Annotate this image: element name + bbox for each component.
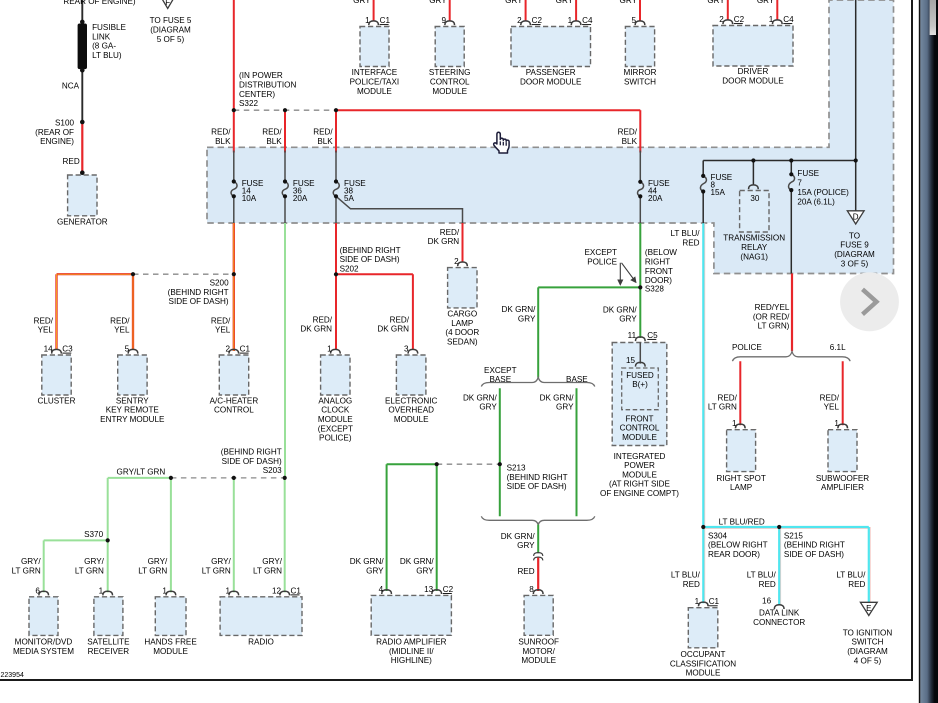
svg-text:SIDE OF DASH): SIDE OF DASH): [340, 255, 400, 264]
svg-text:DK GRN/: DK GRN/: [540, 393, 575, 402]
svg-text:15A (POLICE): 15A (POLICE): [797, 188, 849, 197]
svg-text:GRY: GRY: [620, 0, 638, 5]
svg-text:(DIAGRAM: (DIAGRAM: [834, 250, 875, 259]
svg-text:RED/: RED/: [820, 393, 840, 402]
svg-text:CLASSIFICATION: CLASSIFICATION: [670, 659, 736, 668]
svg-text:C1: C1: [709, 597, 720, 606]
svg-text:HANDS FREE: HANDS FREE: [144, 638, 197, 647]
svg-text:SIDE OF DASH): SIDE OF DASH): [507, 482, 567, 491]
svg-text:RED/: RED/: [313, 315, 333, 324]
svg-text:C1: C1: [240, 345, 251, 354]
svg-text:GRY/: GRY/: [211, 557, 231, 566]
svg-text:RED: RED: [517, 567, 534, 576]
svg-text:(OR RED/: (OR RED/: [753, 312, 790, 321]
svg-text:GRY: GRY: [353, 0, 371, 5]
svg-text:DOOR MODULE: DOOR MODULE: [520, 78, 582, 87]
svg-text:LT GRN: LT GRN: [12, 566, 41, 575]
svg-text:FUSED: FUSED: [626, 371, 654, 380]
svg-text:F: F: [165, 0, 170, 7]
svg-text:1: 1: [162, 586, 167, 595]
svg-text:GRY/: GRY/: [21, 557, 41, 566]
svg-text:RIGHT: RIGHT: [645, 258, 670, 267]
svg-text:STEERING: STEERING: [429, 68, 471, 77]
svg-text:(BEHIND RIGHT: (BEHIND RIGHT: [221, 448, 282, 457]
svg-text:SIDE OF DASH): SIDE OF DASH): [169, 297, 229, 306]
svg-text:S304: S304: [708, 531, 727, 540]
svg-text:ENGINE): ENGINE): [40, 137, 74, 146]
svg-text:TRANSMISSION: TRANSMISSION: [723, 234, 785, 243]
svg-text:FRONT: FRONT: [626, 414, 654, 423]
svg-text:(IN POWER: (IN POWER: [239, 71, 283, 80]
svg-text:FUSE: FUSE: [797, 169, 819, 178]
svg-text:SENTRY: SENTRY: [116, 396, 149, 405]
svg-text:S100: S100: [55, 119, 74, 128]
svg-text:(AT RIGHT SIDE: (AT RIGHT SIDE: [609, 480, 671, 489]
svg-text:FRONT: FRONT: [645, 267, 673, 276]
svg-text:6.1L: 6.1L: [830, 343, 846, 352]
svg-text:10A: 10A: [242, 194, 257, 203]
svg-text:DATA LINK: DATA LINK: [759, 609, 800, 618]
svg-text:4 OF 5): 4 OF 5): [854, 656, 882, 665]
svg-text:ENTRY MODULE: ENTRY MODULE: [100, 415, 165, 424]
svg-text:DISTRIBUTION: DISTRIBUTION: [239, 81, 296, 90]
svg-text:LT BLU/: LT BLU/: [670, 229, 700, 238]
svg-text:YEL: YEL: [114, 326, 130, 335]
svg-text:RIGHT SPOT: RIGHT SPOT: [716, 474, 766, 483]
svg-text:223954: 223954: [1, 672, 24, 679]
svg-text:2: 2: [719, 15, 724, 24]
svg-text:(BELOW RIGHT: (BELOW RIGHT: [708, 541, 768, 550]
svg-text:GRY: GRY: [556, 403, 574, 412]
svg-text:(EXCEPT: (EXCEPT: [318, 424, 353, 433]
svg-text:GRY: GRY: [366, 566, 384, 575]
svg-text:LT BLU/: LT BLU/: [836, 571, 866, 580]
svg-text:DK GRN/: DK GRN/: [501, 532, 536, 541]
svg-text:LT GRN: LT GRN: [708, 403, 737, 412]
svg-text:(8 GA-: (8 GA-: [92, 42, 116, 51]
svg-text:1: 1: [568, 16, 573, 25]
svg-text:3: 3: [404, 345, 409, 354]
svg-text:S202: S202: [340, 265, 359, 274]
svg-text:LT BLU): LT BLU): [92, 51, 122, 60]
svg-text:BLK: BLK: [622, 137, 638, 146]
svg-text:PASSENGER: PASSENGER: [526, 68, 576, 77]
svg-text:RED/: RED/: [313, 127, 333, 136]
svg-text:C2: C2: [443, 585, 454, 594]
svg-text:BLK: BLK: [317, 137, 333, 146]
svg-text:1: 1: [732, 419, 737, 428]
svg-text:30: 30: [750, 194, 760, 203]
svg-text:LT BLU/: LT BLU/: [747, 571, 777, 580]
svg-text:(BELOW: (BELOW: [645, 248, 677, 257]
svg-text:RED/: RED/: [618, 127, 638, 136]
svg-text:EXCEPT: EXCEPT: [484, 366, 517, 375]
svg-text:MODULE: MODULE: [622, 470, 657, 479]
svg-text:CENTER): CENTER): [239, 90, 275, 99]
svg-text:TO IGNITION: TO IGNITION: [843, 628, 893, 637]
svg-text:AMPLIFIER: AMPLIFIER: [821, 483, 864, 492]
svg-text:REAR OF ENGINE): REAR OF ENGINE): [63, 0, 136, 6]
svg-text:POLICE: POLICE: [732, 343, 762, 352]
svg-text:RED: RED: [759, 580, 776, 589]
svg-text:DK GRN/: DK GRN/: [502, 305, 537, 314]
svg-text:SUBWOOFER: SUBWOOFER: [816, 474, 869, 483]
svg-text:OF ENGINE COMPT): OF ENGINE COMPT): [600, 489, 679, 498]
svg-text:RED/: RED/: [390, 315, 410, 324]
svg-text:LT GRN): LT GRN): [758, 322, 790, 331]
svg-text:RELAY: RELAY: [741, 243, 768, 252]
svg-text:3 OF 5): 3 OF 5): [841, 259, 869, 268]
svg-text:1: 1: [834, 419, 839, 428]
svg-text:CONNECTOR: CONNECTOR: [753, 618, 805, 627]
svg-text:MONITOR/DVD: MONITOR/DVD: [15, 638, 73, 647]
svg-text:1: 1: [695, 597, 700, 606]
svg-text:MODULE: MODULE: [318, 415, 353, 424]
svg-text:1: 1: [769, 15, 774, 24]
svg-text:CLUSTER: CLUSTER: [38, 396, 76, 405]
svg-text:1: 1: [365, 16, 370, 25]
svg-text:RED/: RED/: [110, 316, 130, 325]
svg-text:RED: RED: [682, 238, 699, 247]
svg-text:15A: 15A: [711, 188, 726, 197]
svg-text:DK GRN: DK GRN: [300, 325, 332, 334]
svg-text:5: 5: [125, 345, 130, 354]
svg-text:GRY: GRY: [505, 0, 523, 5]
svg-text:5: 5: [631, 16, 636, 25]
svg-text:POLICE: POLICE: [587, 258, 617, 267]
svg-text:KEY REMOTE: KEY REMOTE: [106, 406, 160, 415]
svg-text:(BEHIND RIGHT: (BEHIND RIGHT: [168, 288, 229, 297]
svg-text:RED/: RED/: [440, 228, 460, 237]
svg-text:1: 1: [327, 345, 332, 354]
svg-text:S328: S328: [645, 284, 664, 293]
svg-text:(MIDLINE II/: (MIDLINE II/: [389, 647, 434, 656]
svg-text:INTERFACE: INTERFACE: [352, 68, 398, 77]
svg-text:RED/: RED/: [211, 127, 231, 136]
svg-text:GRY: GRY: [479, 403, 497, 412]
svg-text:BLK: BLK: [266, 137, 282, 146]
svg-text:POWER: POWER: [624, 461, 655, 470]
svg-text:RED/: RED/: [34, 316, 54, 325]
svg-text:A/C-HEATER: A/C-HEATER: [210, 396, 259, 405]
svg-text:SIDE OF DASH): SIDE OF DASH): [784, 550, 844, 559]
svg-text:SATELLITE: SATELLITE: [87, 638, 130, 647]
svg-text:TO: TO: [849, 231, 860, 240]
svg-text:GRY/: GRY/: [148, 557, 168, 566]
svg-text:C4: C4: [582, 16, 593, 25]
svg-text:E: E: [866, 604, 871, 613]
svg-text:S322: S322: [239, 99, 258, 108]
svg-text:BLK: BLK: [215, 137, 231, 146]
svg-text:8: 8: [529, 585, 534, 594]
svg-text:MOTOR/: MOTOR/: [523, 647, 556, 656]
svg-text:S370: S370: [84, 530, 103, 539]
svg-text:7: 7: [797, 179, 802, 188]
svg-text:(BEHIND RIGHT: (BEHIND RIGHT: [340, 246, 401, 255]
svg-text:C1: C1: [380, 16, 391, 25]
svg-text:SWITCH: SWITCH: [624, 78, 656, 87]
svg-text:OCCUPANT: OCCUPANT: [681, 650, 726, 659]
svg-text:MEDIA SYSTEM: MEDIA SYSTEM: [13, 647, 74, 656]
svg-text:DK GRN/: DK GRN/: [463, 393, 498, 402]
svg-text:CLOCK: CLOCK: [321, 406, 350, 415]
svg-text:DK GRN: DK GRN: [377, 325, 409, 334]
svg-text:GRY: GRY: [707, 0, 725, 5]
svg-text:2: 2: [225, 345, 230, 354]
svg-text:POLICE/TAXI: POLICE/TAXI: [350, 78, 400, 87]
svg-text:LT GRN: LT GRN: [202, 566, 231, 575]
svg-text:5A: 5A: [344, 194, 355, 203]
svg-text:MIRROR: MIRROR: [624, 68, 657, 77]
svg-text:LAMP: LAMP: [730, 483, 752, 492]
svg-text:S203: S203: [263, 466, 282, 475]
svg-text:2: 2: [454, 257, 459, 266]
svg-text:NCA: NCA: [62, 82, 80, 91]
svg-text:GRY: GRY: [556, 0, 574, 5]
svg-text:(4 DOOR: (4 DOOR: [445, 328, 479, 337]
svg-text:13: 13: [424, 585, 434, 594]
svg-text:9: 9: [441, 16, 446, 25]
svg-text:LT GRN: LT GRN: [138, 566, 167, 575]
svg-text:DK GRN: DK GRN: [428, 237, 460, 246]
svg-text:C2: C2: [532, 16, 543, 25]
svg-text:RED/YEL: RED/YEL: [755, 303, 790, 312]
svg-text:LINK: LINK: [92, 32, 111, 41]
svg-text:POLICE): POLICE): [319, 434, 352, 443]
svg-text:MODULE: MODULE: [432, 87, 467, 96]
svg-text:CARGO: CARGO: [447, 310, 477, 319]
svg-text:MODULE: MODULE: [521, 656, 556, 665]
svg-text:GRY: GRY: [429, 0, 447, 5]
svg-text:1: 1: [99, 586, 104, 595]
svg-text:11: 11: [628, 331, 637, 340]
svg-text:(REAR OF: (REAR OF: [35, 128, 74, 137]
svg-text:D: D: [853, 212, 859, 221]
svg-text:RADIO AMPLIFIER: RADIO AMPLIFIER: [376, 638, 447, 647]
svg-text:MODULE: MODULE: [622, 433, 657, 442]
svg-text:FUSE 9: FUSE 9: [840, 241, 869, 250]
svg-text:6: 6: [35, 586, 40, 595]
svg-text:20A (6.1L): 20A (6.1L): [797, 198, 835, 207]
svg-text:RADIO: RADIO: [248, 638, 274, 647]
svg-text:RECEIVER: RECEIVER: [88, 647, 130, 656]
svg-text:(BEHIND RIGHT: (BEHIND RIGHT: [507, 473, 568, 482]
svg-text:DK GRN/: DK GRN/: [603, 305, 638, 314]
svg-text:(DIAGRAM: (DIAGRAM: [150, 26, 191, 35]
svg-text:1: 1: [225, 586, 230, 595]
svg-text:GRY/: GRY/: [84, 557, 104, 566]
svg-text:DRIVER: DRIVER: [738, 67, 769, 76]
svg-text:GRY: GRY: [416, 566, 434, 575]
svg-text:GRY: GRY: [757, 0, 775, 5]
svg-text:5 OF 5): 5 OF 5): [157, 35, 185, 44]
svg-text:16: 16: [762, 596, 772, 605]
svg-text:LT BLU/: LT BLU/: [671, 571, 701, 580]
svg-text:14: 14: [44, 345, 54, 354]
svg-text:CONTROL: CONTROL: [430, 78, 470, 87]
svg-text:S200: S200: [210, 279, 229, 288]
svg-text:RED: RED: [848, 580, 865, 589]
svg-text:DK GRN/: DK GRN/: [350, 557, 385, 566]
svg-text:OVERHEAD: OVERHEAD: [388, 406, 434, 415]
svg-text:B(+): B(+): [632, 380, 648, 389]
svg-text:SWITCH: SWITCH: [851, 638, 883, 647]
svg-text:4: 4: [379, 585, 384, 594]
svg-text:MODULE: MODULE: [686, 669, 721, 678]
svg-text:ANALOG: ANALOG: [318, 396, 352, 405]
svg-text:S213: S213: [507, 464, 526, 473]
svg-text:C1: C1: [291, 586, 302, 595]
svg-text:SIDE OF DASH): SIDE OF DASH): [222, 457, 282, 466]
svg-text:EXCEPT: EXCEPT: [584, 248, 617, 257]
svg-text:(DIAGRAM: (DIAGRAM: [847, 647, 888, 656]
svg-text:2: 2: [517, 16, 522, 25]
svg-text:20A: 20A: [648, 194, 663, 203]
svg-text:ELECTRONIC: ELECTRONIC: [385, 396, 438, 405]
svg-text:GRY: GRY: [518, 314, 536, 323]
svg-text:LT BLU/RED: LT BLU/RED: [719, 517, 765, 526]
svg-text:YEL: YEL: [824, 403, 840, 412]
svg-text:MODULE: MODULE: [394, 415, 429, 424]
svg-text:CONTROL: CONTROL: [214, 406, 254, 415]
svg-text:C2: C2: [734, 15, 745, 24]
svg-text:20A: 20A: [293, 194, 308, 203]
svg-text:LT GRN: LT GRN: [253, 566, 282, 575]
svg-text:RED: RED: [683, 580, 700, 589]
svg-text:(BEHIND RIGHT: (BEHIND RIGHT: [784, 541, 845, 550]
svg-text:RED/: RED/: [211, 316, 231, 325]
svg-text:SEDAN): SEDAN): [447, 337, 478, 346]
svg-text:INTEGRATED: INTEGRATED: [614, 452, 666, 461]
svg-text:GENERATOR: GENERATOR: [57, 218, 108, 227]
svg-text:LT GRN: LT GRN: [75, 566, 104, 575]
svg-text:(NAG1): (NAG1): [740, 252, 768, 261]
svg-text:S215: S215: [784, 531, 803, 540]
svg-text:GRY/LT GRN: GRY/LT GRN: [117, 468, 166, 477]
svg-text:C4: C4: [783, 15, 794, 24]
svg-text:C5: C5: [647, 331, 658, 340]
svg-text:MODULE: MODULE: [357, 87, 392, 96]
svg-text:LAMP: LAMP: [451, 319, 473, 328]
svg-text:REAR DOOR): REAR DOOR): [708, 550, 760, 559]
svg-text:15: 15: [626, 356, 636, 365]
svg-text:FUSIBLE: FUSIBLE: [92, 23, 126, 32]
svg-text:RED/: RED/: [717, 393, 737, 402]
svg-text:GRY: GRY: [517, 541, 535, 550]
svg-text:BASE: BASE: [489, 375, 511, 384]
svg-text:MODULE: MODULE: [153, 647, 188, 656]
svg-text:BASE: BASE: [566, 375, 588, 384]
svg-text:DK GRN/: DK GRN/: [400, 557, 435, 566]
svg-text:GRY/: GRY/: [262, 557, 282, 566]
svg-text:CONTROL: CONTROL: [620, 424, 660, 433]
svg-text:YEL: YEL: [215, 326, 231, 335]
svg-text:SUNROOF: SUNROOF: [518, 638, 559, 647]
svg-text:12: 12: [272, 586, 282, 595]
svg-text:C3: C3: [62, 345, 73, 354]
svg-text:TO FUSE 5: TO FUSE 5: [150, 16, 192, 25]
svg-text:RED: RED: [63, 157, 80, 166]
svg-text:HIGHLINE): HIGHLINE): [391, 656, 432, 665]
svg-text:RED/: RED/: [262, 127, 282, 136]
svg-text:YEL: YEL: [38, 326, 54, 335]
svg-text:DOOR MODULE: DOOR MODULE: [722, 77, 784, 86]
svg-text:GRY: GRY: [619, 315, 637, 324]
